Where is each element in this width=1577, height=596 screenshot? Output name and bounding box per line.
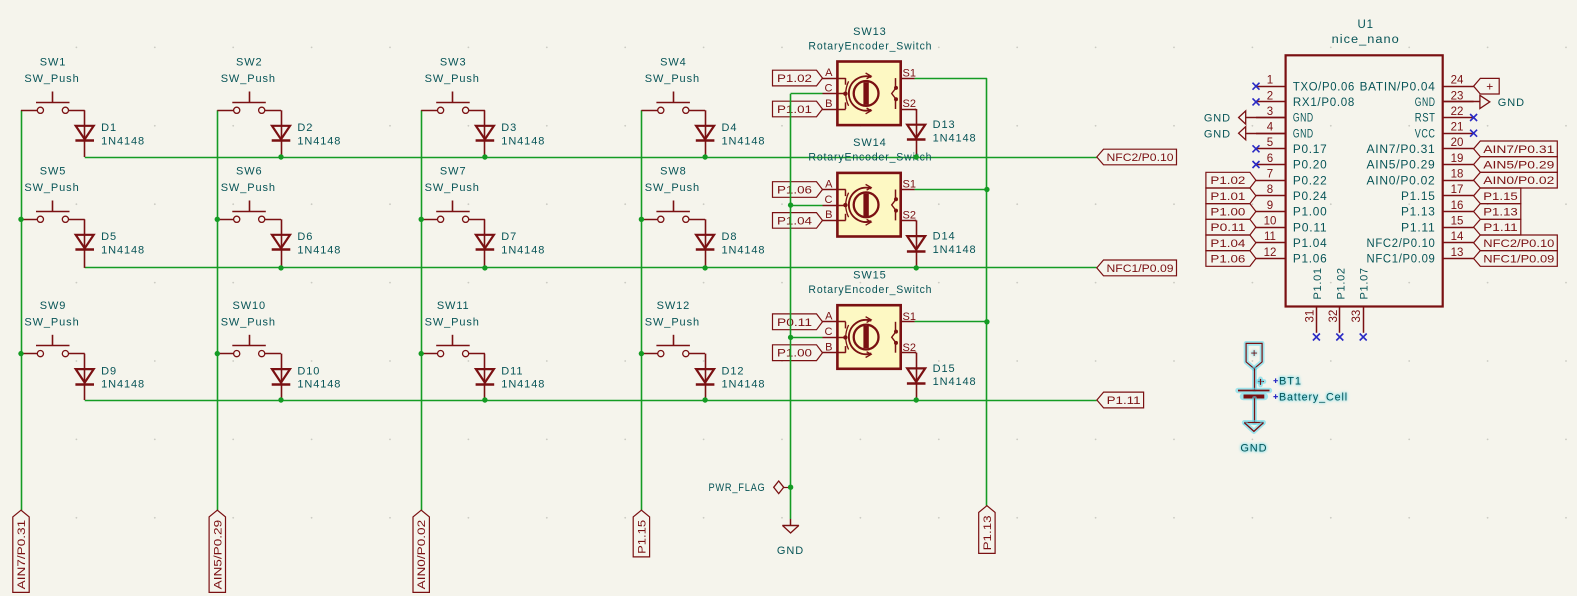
diode D12 1N4148 — [696, 369, 714, 383]
svg-text:P1.07: P1.07 — [1359, 267, 1371, 299]
global label P1.13 (U1 pin 16) — [1474, 204, 1521, 220]
svg-text:B: B — [825, 342, 832, 354]
svg-text:NFC2/P0.10: NFC2/P0.10 — [1107, 152, 1174, 164]
U1 pin 20 (AIN7/P0.31) — [1443, 148, 1474, 150]
svg-text:SW6: SW6 — [236, 166, 263, 178]
svg-text:1N4148: 1N4148 — [101, 379, 145, 391]
svg-text:20: 20 — [1451, 137, 1464, 149]
diode D7 1N4148 — [476, 235, 494, 249]
power symbol GND (U1 pin 23) — [1443, 101, 1480, 103]
svg-text:1N4148: 1N4148 — [501, 379, 545, 391]
svg-text:P1.02: P1.02 — [777, 73, 812, 85]
svg-text:GND: GND — [1240, 443, 1267, 455]
junction — [702, 265, 707, 270]
svg-text:1N4148: 1N4148 — [722, 135, 766, 147]
U1 pin 6 (P0.20) — [1256, 164, 1286, 166]
svg-text:RotaryEncoder_Switch: RotaryEncoder_Switch — [808, 284, 932, 296]
wire row 1 bus (net NFC2/P0.10) — [85, 157, 1097, 159]
global label P1.11 (U1 pin 15) — [1474, 219, 1521, 235]
svg-text:P0.24: P0.24 — [1293, 191, 1328, 203]
global label P1.04 (pin B of SW14) — [773, 213, 823, 229]
svg-text:P0.20: P0.20 — [1293, 160, 1328, 172]
svg-text:1N4148: 1N4148 — [933, 133, 977, 145]
power symbol + (battery top, selected) — [1246, 343, 1262, 368]
svg-text:RotaryEncoder_Switch: RotaryEncoder_Switch — [808, 40, 932, 52]
global label AIN5/P0.29 (column 2) — [209, 510, 225, 592]
global label P1.13 (encoder S1 net) — [979, 506, 995, 554]
svg-text:D11: D11 — [501, 365, 523, 377]
svg-text:AIN0/P0.02: AIN0/P0.02 — [416, 520, 428, 590]
global label P1.01 (pin B of SW13) — [773, 101, 823, 117]
global label AIN0/P0.02 (U1 pin 18) — [1474, 172, 1558, 188]
svg-text:BATIN/P0.04: BATIN/P0.04 — [1360, 81, 1436, 93]
svg-text:P1.00: P1.00 — [1210, 207, 1245, 219]
svg-text:D15: D15 — [933, 363, 956, 375]
svg-text:NFC1/P0.09: NFC1/P0.09 — [1107, 263, 1174, 275]
svg-text:D12: D12 — [722, 365, 745, 377]
svg-text:1N4148: 1N4148 — [101, 244, 145, 256]
U1 pin 8 (P0.24) — [1256, 195, 1286, 197]
svg-text:D7: D7 — [501, 231, 517, 243]
svg-text:9: 9 — [1267, 200, 1273, 212]
svg-text:1N4148: 1N4148 — [933, 376, 977, 388]
global label P1.04 (U1 pin 11) — [1206, 235, 1256, 251]
junction — [419, 217, 424, 222]
svg-text:D4: D4 — [722, 122, 738, 134]
diode D15 1N4148 — [907, 368, 925, 382]
junction — [984, 187, 989, 192]
svg-text:NFC2/P0.10: NFC2/P0.10 — [1367, 238, 1436, 250]
U1 pin 10 (P0.11) — [1256, 227, 1286, 229]
svg-text:24: 24 — [1451, 75, 1464, 87]
global label P1.01 (U1 pin 8) — [1206, 188, 1256, 204]
svg-text:AIN7/P0.31: AIN7/P0.31 — [1483, 144, 1554, 156]
global label AIN0/P0.02 (column 3) — [413, 510, 429, 592]
wire row 3 bus (net P1.11) — [85, 400, 1097, 402]
svg-text:SW_Push: SW_Push — [645, 182, 700, 194]
U1 pin 23 (GND) — [1443, 101, 1474, 103]
U1 pin 17 (P1.15) — [1443, 195, 1474, 197]
svg-text:SW10: SW10 — [233, 300, 267, 312]
global label P0.11 (U1 pin 10) — [1206, 219, 1256, 235]
U1 pin 14 (NFC2/P0.10) — [1443, 242, 1474, 244]
junction — [482, 265, 487, 270]
svg-text:C: C — [825, 326, 833, 338]
svg-text:P0.11: P0.11 — [1293, 222, 1328, 234]
wire SW15.S2 to D15 — [916, 353, 918, 400]
global label P1.06 (pin A of SW14) — [773, 182, 823, 198]
wire SW12 to D12 — [705, 354, 707, 400]
U1 pin 11 (P1.04) — [1256, 242, 1286, 244]
svg-text:SW_Push: SW_Push — [221, 73, 276, 85]
svg-text:14: 14 — [1451, 231, 1464, 243]
svg-text:12: 12 — [1264, 247, 1277, 259]
svg-text:SW3: SW3 — [440, 57, 467, 69]
global label AIN7/P0.31 (column 1) — [13, 510, 29, 592]
svg-text:B: B — [825, 209, 832, 221]
junction — [639, 351, 644, 356]
junction — [639, 217, 644, 222]
diode D4 1N4148 — [696, 126, 714, 140]
ground GND (below PWR_FLAG) — [790, 519, 792, 525]
svg-text:7: 7 — [1267, 169, 1273, 181]
wire SW9 to D9 — [84, 354, 86, 400]
svg-text:33: 33 — [1351, 310, 1363, 323]
no-connect pin 2 — [1253, 98, 1260, 105]
svg-text:P0.11: P0.11 — [1210, 222, 1245, 234]
svg-text:5: 5 — [1267, 137, 1273, 149]
svg-text:1N4148: 1N4148 — [722, 244, 766, 256]
svg-text:P1.04: P1.04 — [1210, 238, 1245, 250]
svg-text:D5: D5 — [101, 231, 117, 243]
svg-text:SW15: SW15 — [853, 270, 887, 282]
svg-text:S2: S2 — [903, 342, 916, 354]
diode D13 1N4148 — [907, 125, 925, 139]
svg-text:4: 4 — [1267, 122, 1274, 134]
diode D2 1N4148 — [272, 126, 290, 140]
svg-text:17: 17 — [1451, 184, 1464, 196]
junction — [215, 351, 220, 356]
diode D3 1N4148 — [476, 126, 494, 140]
wire SW14.C — [791, 205, 823, 207]
svg-text:AIN5/P0.29: AIN5/P0.29 — [212, 520, 224, 590]
svg-text:SW2: SW2 — [236, 57, 263, 69]
svg-text:21: 21 — [1451, 122, 1464, 134]
wire SW15.C — [791, 337, 823, 339]
diode D9 1N4148 — [76, 369, 94, 383]
svg-text:1N4148: 1N4148 — [297, 244, 341, 256]
svg-text:A: A — [825, 311, 833, 323]
no-connect pin 1 — [1253, 83, 1260, 90]
svg-text:RST: RST — [1415, 113, 1436, 125]
svg-text:TXO/P0.06: TXO/P0.06 — [1293, 81, 1355, 93]
wire SW2 to D2 — [281, 110, 283, 157]
U1 pin 12 (P1.06) — [1256, 258, 1286, 260]
svg-text:Battery_Cell: Battery_Cell — [1279, 392, 1348, 404]
svg-text:+: + — [1486, 80, 1493, 94]
U1 pin 7 (P0.22) — [1256, 180, 1286, 182]
svg-text:GND: GND — [1498, 97, 1525, 109]
junction — [984, 319, 989, 324]
junction — [278, 397, 283, 402]
wire SW14.S1 — [915, 189, 987, 191]
diode D6 1N4148 — [272, 235, 290, 249]
svg-text:S2: S2 — [903, 98, 916, 110]
svg-text:1N4148: 1N4148 — [297, 135, 341, 147]
wire SW11 to D11 — [484, 354, 486, 400]
svg-text:SW11: SW11 — [437, 300, 470, 312]
junction — [788, 335, 793, 340]
svg-text:23: 23 — [1451, 90, 1464, 102]
global label P0.11 (pin A of SW15) — [773, 314, 823, 330]
svg-text:SW12: SW12 — [657, 300, 691, 312]
svg-text:nice_nano: nice_nano — [1332, 34, 1400, 46]
svg-text:SW_Push: SW_Push — [645, 316, 700, 328]
svg-text:P1.01: P1.01 — [777, 104, 812, 116]
wire SW7 to D7 — [484, 219, 486, 268]
svg-text:SW9: SW9 — [40, 300, 67, 312]
svg-text:16: 16 — [1451, 200, 1464, 212]
global label P1.00 (pin B of SW15) — [773, 345, 823, 361]
U1 pin 33 (P1.07) — [1363, 307, 1365, 333]
svg-text:P1.06: P1.06 — [1210, 254, 1245, 266]
svg-text:NFC1/P0.09: NFC1/P0.09 — [1483, 254, 1554, 266]
U1 pin 31 (P1.01) — [1316, 307, 1318, 333]
global label P1.15 (column 4) — [633, 510, 649, 557]
svg-text:P1.13: P1.13 — [1401, 207, 1436, 219]
svg-text:D14: D14 — [933, 231, 956, 243]
svg-text:VCC: VCC — [1415, 128, 1436, 140]
svg-text:SW_Push: SW_Push — [425, 73, 480, 85]
global label P1.06 (U1 pin 12) — [1206, 251, 1256, 267]
diode D11 1N4148 — [476, 369, 494, 383]
junction — [18, 351, 23, 356]
svg-text:D6: D6 — [297, 231, 313, 243]
U1 pin 24 (BATIN/P0.04) — [1443, 86, 1474, 88]
svg-text:P1.01: P1.01 — [1312, 267, 1324, 299]
svg-text:31: 31 — [1304, 310, 1316, 323]
junction — [278, 265, 283, 270]
diode D14 1N4148 — [907, 236, 925, 250]
global label P1.02 (pin A of SW13) — [773, 70, 823, 86]
svg-text:GND: GND — [1293, 128, 1314, 140]
wire SW6 to D6 — [281, 219, 283, 268]
U1 pin 15 (P1.11) — [1443, 227, 1474, 229]
svg-text:6: 6 — [1267, 153, 1273, 165]
U1 pin 19 (AIN5/P0.29) — [1443, 164, 1474, 166]
svg-text:SW_Push: SW_Push — [24, 316, 79, 328]
global label P1.15 (U1 pin 17) — [1474, 188, 1521, 204]
wire SW3 to D3 — [484, 110, 486, 157]
svg-text:GND: GND — [1204, 113, 1231, 125]
svg-text:D2: D2 — [297, 122, 313, 134]
wire SW1 to D1 — [84, 110, 86, 157]
svg-text:SW_Push: SW_Push — [645, 73, 700, 85]
svg-text:P0.11: P0.11 — [777, 317, 812, 329]
global label P1.02 (U1 pin 7) — [1206, 172, 1256, 188]
wire SW13.S1 to P1.13 vertical — [915, 78, 987, 80]
svg-text:SW_Push: SW_Push — [24, 73, 79, 85]
svg-text:2: 2 — [1267, 90, 1273, 102]
wire SW13.S2 to D13 — [916, 109, 918, 157]
svg-text:S1: S1 — [903, 311, 916, 323]
svg-text:PWR_FLAG: PWR_FLAG — [709, 482, 766, 494]
svg-text:A: A — [825, 178, 833, 190]
no-connect pin 33 — [1360, 334, 1367, 341]
junction — [482, 154, 487, 159]
svg-text:AIN5/P0.29: AIN5/P0.29 — [1483, 160, 1554, 172]
svg-text:D8: D8 — [722, 231, 738, 243]
svg-text:BT1: BT1 — [1279, 376, 1302, 388]
junction — [278, 154, 283, 159]
svg-text:S2: S2 — [903, 210, 916, 222]
svg-text:22: 22 — [1451, 106, 1464, 118]
svg-text:GND: GND — [1204, 128, 1231, 140]
svg-text:13: 13 — [1451, 247, 1464, 259]
svg-text:1N4148: 1N4148 — [933, 244, 977, 256]
wire SW8 to D8 — [705, 219, 707, 268]
svg-text:SW8: SW8 — [660, 166, 687, 178]
svg-text:SW_Push: SW_Push — [221, 316, 276, 328]
no-connect pin 32 — [1336, 334, 1343, 341]
svg-text:SW1: SW1 — [40, 57, 67, 69]
svg-text:1N4148: 1N4148 — [101, 135, 145, 147]
svg-text:D1: D1 — [101, 122, 117, 134]
svg-text:3: 3 — [1267, 106, 1273, 118]
U1 pin 13 (NFC1/P0.09) — [1443, 258, 1474, 260]
global label NFC2/P0.10 (row 1 bus) — [1097, 149, 1177, 165]
global label NFC2/P0.10 (U1 pin 14) — [1474, 235, 1558, 251]
svg-text:C: C — [825, 194, 833, 206]
svg-text:SW_Push: SW_Push — [24, 182, 79, 194]
wire SW15.S1 — [915, 321, 987, 323]
junction — [914, 265, 919, 270]
svg-text:P1.15: P1.15 — [636, 520, 648, 554]
wire row 2 bus (net NFC1/P0.09) — [85, 267, 1097, 269]
svg-text:A: A — [825, 67, 833, 79]
U1 pin 21 (VCC) — [1443, 133, 1474, 135]
global label P1.00 (U1 pin 9) — [1206, 204, 1256, 220]
svg-text:NFC2/P0.10: NFC2/P0.10 — [1483, 238, 1554, 250]
svg-text:11: 11 — [1264, 231, 1276, 243]
svg-text:U1: U1 — [1357, 19, 1374, 31]
svg-text:GND: GND — [1415, 97, 1436, 109]
junction — [18, 217, 23, 222]
wire SW4 to D4 — [705, 110, 707, 157]
diode D10 1N4148 — [272, 369, 290, 383]
global label AIN7/P0.31 (U1 pin 20) — [1474, 141, 1558, 157]
svg-text:P1.06: P1.06 — [1293, 254, 1328, 266]
U1 pin 22 (RST) — [1443, 117, 1474, 119]
junction — [482, 397, 487, 402]
svg-text:C: C — [825, 83, 833, 95]
global label NFC1/P0.09 (row 2 bus) — [1097, 260, 1177, 276]
svg-text:GND: GND — [1293, 113, 1314, 125]
junction — [788, 485, 793, 490]
U1 pin 9 (P1.00) — [1256, 211, 1286, 213]
svg-text:P1.11: P1.11 — [1401, 222, 1436, 234]
svg-text:SW_Push: SW_Push — [425, 316, 480, 328]
svg-text:SW14: SW14 — [853, 137, 887, 149]
global label + (pin 24, battery positive) — [1474, 78, 1500, 94]
svg-text:D10: D10 — [297, 365, 320, 377]
global label AIN5/P0.29 (U1 pin 19) — [1474, 157, 1558, 173]
wire GND net vertical (encoder commons) — [790, 94, 792, 519]
wire SW14.S2 to D14 — [916, 220, 918, 268]
svg-text:S1: S1 — [903, 179, 916, 191]
svg-text:P1.11: P1.11 — [1107, 395, 1141, 407]
svg-text:B: B — [825, 98, 832, 110]
svg-text:1N4148: 1N4148 — [501, 244, 545, 256]
svg-text:SW7: SW7 — [440, 166, 467, 178]
svg-text:P1.13: P1.13 — [982, 515, 994, 550]
svg-text:P1.04: P1.04 — [777, 215, 812, 227]
svg-text:SW13: SW13 — [853, 26, 887, 38]
svg-text:1N4148: 1N4148 — [501, 135, 545, 147]
U1 pin 5 (P0.17) — [1256, 148, 1286, 150]
U1 pin 1 (TXO/P0.06) — [1256, 86, 1286, 88]
junction — [914, 154, 919, 159]
svg-text:P1.01: P1.01 — [1210, 191, 1245, 203]
svg-text:10: 10 — [1264, 216, 1277, 228]
svg-text:GND: GND — [777, 545, 804, 557]
svg-text:+: + — [1251, 346, 1258, 360]
wire column 2 vertical (net AIN5/P0.29) — [217, 110, 219, 510]
global label P1.11 (row 3 bus) — [1097, 392, 1144, 408]
svg-text:P1.15: P1.15 — [1483, 191, 1518, 203]
svg-text:P1.04: P1.04 — [1293, 238, 1328, 250]
svg-text:SW5: SW5 — [40, 166, 67, 178]
U1 pin 3 (GND) — [1256, 117, 1286, 119]
U1 pin 18 (AIN0/P0.02) — [1443, 180, 1474, 182]
battery BT1 Battery_Cell (selected) — [1252, 369, 1257, 390]
no-connect pin 5 — [1253, 145, 1260, 152]
wire SW10 to D10 — [281, 354, 283, 400]
wire column 1 vertical (net AIN7/P0.31) — [21, 110, 23, 510]
wire SW5 to D5 — [84, 219, 86, 268]
svg-text:SW_Push: SW_Push — [221, 182, 276, 194]
svg-text:RX1/P0.08: RX1/P0.08 — [1293, 97, 1355, 109]
junction — [419, 351, 424, 356]
wire column 3 vertical (net AIN0/P0.02) — [421, 110, 423, 510]
junction — [914, 397, 919, 402]
svg-text:SW_Push: SW_Push — [425, 182, 480, 194]
svg-text:P1.13: P1.13 — [1483, 207, 1518, 219]
svg-text:P1.06: P1.06 — [777, 185, 812, 197]
svg-text:15: 15 — [1451, 216, 1464, 228]
junction — [702, 154, 707, 159]
svg-text:P1.00: P1.00 — [777, 348, 812, 360]
svg-text:AIN7/P0.31: AIN7/P0.31 — [1367, 144, 1436, 156]
svg-text:D13: D13 — [933, 119, 956, 131]
svg-text:D3: D3 — [501, 122, 517, 134]
svg-text:S1: S1 — [903, 67, 916, 79]
power symbol GND (U1 pin 4) — [1246, 133, 1286, 135]
diode D1 1N4148 — [76, 126, 94, 140]
diode D8 1N4148 — [696, 235, 714, 249]
U1 pin 32 (P1.02) — [1339, 307, 1341, 333]
svg-text:SW4: SW4 — [660, 57, 687, 69]
svg-text:AIN5/P0.29: AIN5/P0.29 — [1367, 160, 1436, 172]
svg-text:D9: D9 — [101, 365, 117, 377]
svg-text:32: 32 — [1328, 310, 1340, 323]
svg-text:AIN7/P0.31: AIN7/P0.31 — [16, 520, 28, 590]
svg-text:P1.02: P1.02 — [1210, 175, 1245, 187]
svg-text:1N4148: 1N4148 — [297, 379, 341, 391]
no-connect pin 22 — [1470, 114, 1477, 121]
U1 pin 2 (RX1/P0.08) — [1256, 101, 1286, 103]
diode D5 1N4148 — [76, 235, 94, 249]
svg-text:8: 8 — [1267, 184, 1273, 196]
svg-text:P0.22: P0.22 — [1293, 175, 1328, 187]
U1 pin 16 (P1.13) — [1443, 211, 1474, 213]
svg-text:NFC1/P0.09: NFC1/P0.09 — [1367, 254, 1436, 266]
junction — [215, 217, 220, 222]
svg-text:1: 1 — [1267, 75, 1273, 87]
junction — [702, 397, 707, 402]
svg-text:P1.11: P1.11 — [1483, 222, 1518, 234]
global label NFC1/P0.09 (U1 pin 13) — [1474, 251, 1558, 267]
svg-text:AIN0/P0.02: AIN0/P0.02 — [1483, 175, 1554, 187]
U1 pin 4 (GND) — [1256, 133, 1286, 135]
svg-text:1N4148: 1N4148 — [722, 379, 766, 391]
no-connect pin 6 — [1253, 161, 1260, 168]
svg-text:18: 18 — [1451, 169, 1464, 181]
svg-text:P0.17: P0.17 — [1293, 144, 1328, 156]
svg-text:P1.15: P1.15 — [1401, 191, 1436, 203]
no-connect pin 21 — [1470, 130, 1477, 137]
junction — [788, 202, 793, 207]
